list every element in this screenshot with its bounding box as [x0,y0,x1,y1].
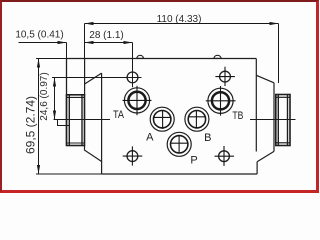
svg-text:69,5 (2.74): 69,5 (2.74) [24,96,38,154]
body lower-right chamfer [257,151,274,161]
body upper-left chamfer diagonal [85,73,102,84]
port A inner circle [154,111,171,128]
arrow right of 28 dim [124,41,133,44]
port B outer circle [185,107,209,131]
port A outer circle [150,107,174,131]
bolt hole lower-left circle [127,151,138,162]
body upper-right chamfer [256,75,274,83]
right plug inner rim bottom [276,142,290,144]
extension line y=58.5 to the left of body [36,58,67,60]
port TA outer circle [124,88,149,113]
dimension line 24,6 vertical [54,78,56,120]
body lower-left vertical [101,73,103,174]
svg-text:28 (1.1): 28 (1.1) [89,30,123,41]
body upper-left step vertical x=85 [84,59,86,96]
dimension line 28 [85,42,133,44]
right side plug outer rect [276,95,290,146]
port TA crosshair [123,86,152,115]
port A crosshair [153,110,171,129]
svg-text:B: B [204,132,211,144]
svg-text:A: A [146,132,154,144]
svg-text:P: P [190,155,197,167]
bolt hole lower-left crosshair [123,146,143,165]
arrow at right end of 10,5 dim [58,41,67,44]
left side plug outer rect [67,95,85,146]
arrow bottom of 69,5 dim [37,165,40,174]
arrow right of 110 dim [270,22,279,25]
bolt hole lower-right circle [219,151,230,162]
svg-text:TB: TB [232,110,243,122]
left plug inner wall left [68,95,70,146]
port TB inner circle [212,92,229,109]
leader hook near left plug [58,120,70,126]
arrow top of 24,6 dim [53,78,56,87]
extension line x=278 (right reference of 110) [278,24,280,84]
body top edge [67,58,257,60]
bolt hole upper-left circle [127,72,138,83]
body left edge [66,59,68,146]
svg-text:TA: TA [113,109,125,121]
port B crosshair [188,110,206,129]
body right edge [273,83,275,152]
svg-text:10,5 (0.41): 10,5 (0.41) [15,29,63,40]
right plug inner rim top [276,96,290,98]
extension line y=174 to the left of body [36,173,102,175]
bolt hole lower-right crosshair [215,146,235,166]
dimension line 10,5 [19,42,67,44]
port TB crosshair [206,86,236,116]
svg-text:24,6 (0.97): 24,6 (0.97) [39,72,50,120]
right plug inner wall left [277,95,279,146]
port P crosshair [170,135,188,153]
port B inner circle [188,111,205,128]
body lower-right vertical [256,162,258,174]
body bottom edge [102,173,258,175]
body upper-right step vertical [255,59,257,152]
body lower-left chamfer [85,146,102,162]
extension line x=84.6 from 110/28 dims down to body step [84,24,86,59]
extension line y=77.6 through upper-left bolt hole [52,77,142,79]
arrow top of 69,5 dim [37,59,40,68]
locating pin dome left on top edge [137,55,144,58]
port P outer circle [167,132,191,156]
dimension line 69,5 vertical [38,59,40,175]
centerline right segment [250,119,296,121]
bolt hole upper-right circle [220,71,231,82]
left plug inner wall right [81,95,83,146]
centerline left segment [54,119,111,121]
port TA inner circle [128,92,145,109]
right plug inner wall right [287,95,289,146]
extension line x=132.6 from 28 dim down to upper-left bolt hole [132,43,134,88]
dimension line 110 [85,23,279,25]
locating pin dome right on top edge [214,55,221,58]
bolt hole upper-right crosshair [215,67,235,86]
port TB outer circle [208,88,233,113]
left plug inner rim top [67,96,85,98]
arrow bottom of 24,6 dim [53,111,56,120]
extension line x=66.5 above body [66,43,68,59]
port P inner circle [171,136,188,153]
arrow left of 28 dim [85,41,94,44]
arrow left of 110 dim [85,22,94,25]
left plug inner rim bottom [67,142,85,144]
